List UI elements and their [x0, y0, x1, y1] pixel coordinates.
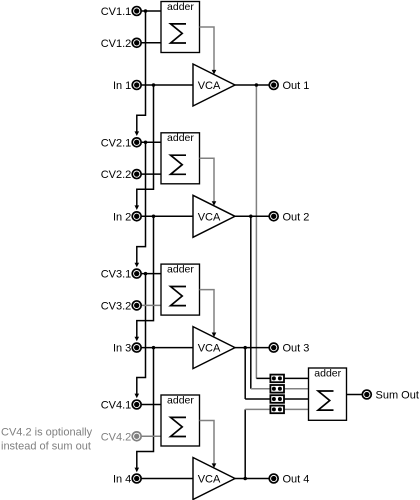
svg-text:CV4.2: CV4.2 [101, 431, 132, 443]
svg-text:adder: adder [167, 1, 194, 13]
svg-text:CV1.1: CV1.1 [101, 6, 132, 18]
svg-text:adder: adder [167, 264, 194, 276]
svg-text:In 3: In 3 [113, 343, 131, 355]
svg-text:CV3.2: CV3.2 [101, 300, 132, 312]
svg-text:VCA: VCA [198, 211, 221, 223]
svg-text:adder: adder [167, 394, 194, 406]
svg-text:Out 1: Out 1 [283, 80, 310, 92]
svg-text:Out 2: Out 2 [283, 211, 310, 223]
svg-text:In 2: In 2 [113, 211, 131, 223]
svg-text:adder: adder [167, 132, 194, 144]
svg-text:CV2.1: CV2.1 [101, 137, 132, 149]
svg-text:VCA: VCA [198, 343, 221, 355]
svg-text:Sum Out: Sum Out [376, 390, 419, 402]
svg-text:instead of sum out: instead of sum out [1, 440, 91, 452]
svg-text:In 1: In 1 [113, 80, 131, 92]
svg-text:CV3.1: CV3.1 [101, 269, 132, 281]
svg-text:Out 3: Out 3 [283, 343, 310, 355]
svg-text:CV4.2 is optionally: CV4.2 is optionally [1, 426, 93, 438]
svg-text:Out 4: Out 4 [283, 474, 310, 486]
svg-text:CV2.2: CV2.2 [101, 169, 132, 181]
svg-text:adder: adder [314, 368, 341, 380]
svg-text:CV1.2: CV1.2 [101, 38, 132, 50]
svg-text:CV4.1: CV4.1 [101, 400, 132, 412]
svg-text:VCA: VCA [198, 80, 221, 92]
svg-text:VCA: VCA [198, 474, 221, 486]
svg-text:In 4: In 4 [113, 474, 131, 486]
